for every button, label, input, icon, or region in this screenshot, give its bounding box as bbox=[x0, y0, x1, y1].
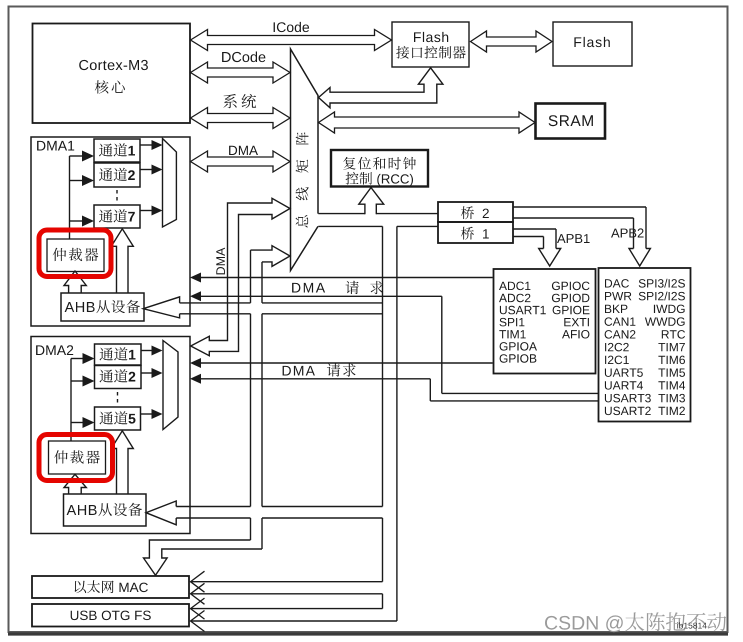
wire bridge1 to APB1 (lower) bbox=[513, 236, 544, 238]
dashed link channels bbox=[116, 190, 118, 203]
block APB2 peripherals bbox=[599, 268, 691, 422]
label 仲裁器 (DMA2) bbox=[54, 450, 100, 463]
label 总线矩阵 (rotated) bbox=[296, 132, 309, 227]
arrow matrix to SRAM bbox=[319, 112, 536, 133]
channel H_ahb2 bottom wall bbox=[176, 517, 250, 519]
channel V right wall bbox=[396, 226, 398, 621]
block bridge 1 bbox=[438, 222, 513, 243]
wire ch1 to funnel DMA2 bbox=[141, 350, 152, 352]
wire to USB 2 bbox=[191, 620, 397, 622]
wire to ch1 + head bbox=[70, 155, 85, 157]
wire to ch1 DMA2 + head bbox=[71, 358, 84, 360]
label 桥 2 bbox=[461, 206, 489, 219]
block DMA1 channel 7 bbox=[94, 205, 140, 228]
funnel DMA2 bbox=[163, 341, 178, 430]
channel C1 right wall segments bbox=[261, 262, 263, 303]
block USB OTG FS bbox=[32, 604, 189, 627]
channel matrix to bridges (top wall + RCC arrow gap) bbox=[318, 213, 365, 215]
channel V left wall segments bbox=[382, 226, 384, 506]
label 仲裁器 (DMA1) bbox=[53, 248, 99, 261]
wire DMA request W2 (APB2 to DMA1) bbox=[196, 295, 442, 297]
block SRAM bbox=[536, 104, 606, 139]
arrow AHB slave up into arbiter (DMA2) bbox=[64, 474, 86, 493]
label DMA bbox=[229, 146, 258, 155]
label DCode bbox=[222, 52, 265, 63]
label DMA 请求 (upper) bbox=[292, 283, 325, 293]
channel H_ahb1 bottom wall bbox=[180, 313, 251, 315]
label SRAM bbox=[549, 115, 593, 126]
block APB1 peripherals bbox=[494, 269, 596, 374]
dashed link channels DMA2 bbox=[117, 392, 119, 405]
label DMA1 bbox=[37, 141, 74, 151]
label DMA2 bbox=[36, 345, 73, 355]
label 桥 1 bbox=[461, 227, 489, 240]
red highlight frame (DMA1 arbiter) bbox=[39, 230, 111, 277]
watermark id bbox=[677, 622, 707, 628]
label APB1 bbox=[557, 234, 590, 243]
arrow AHB slave up into channel 5 bbox=[111, 431, 133, 494]
block DMA2 channel 1 bbox=[95, 344, 142, 365]
channel H_ahb2 top wall bbox=[176, 506, 250, 508]
arrow down into Ethernet MAC (elbow from C1) bbox=[144, 540, 263, 575]
block Ethernet MAC bbox=[32, 576, 189, 598]
wire to ch5 + head bbox=[71, 422, 84, 424]
arrow down into APB1 box bbox=[539, 249, 561, 267]
arrow FlashIF to Flash bbox=[471, 31, 553, 52]
wire ch2 to funnel bbox=[140, 169, 152, 171]
labels APB1 peripheral list bbox=[499, 282, 530, 291]
arrow into DMA2 AHB slave (head) bbox=[146, 501, 176, 525]
wire bridge1 to APB1 (upper) bbox=[513, 228, 557, 230]
watermark CSDN bbox=[545, 612, 726, 632]
label Cortex-M3 bbox=[79, 60, 148, 70]
block DMA2 channel 5 bbox=[95, 407, 141, 430]
channel C1 left wall segments bbox=[250, 250, 252, 303]
label DMA 请求 (lower) bbox=[283, 363, 356, 376]
wire to MAC 1 bbox=[191, 581, 383, 583]
arrow System bus (Cortex to matrix) bbox=[191, 108, 291, 129]
wire ch7 to funnel bbox=[140, 210, 152, 212]
label 核心 bbox=[95, 80, 125, 93]
label DMA (vertical, DMA2 master) bbox=[216, 248, 225, 275]
block bridge 2 bbox=[438, 202, 513, 222]
block DMA2 AHB slave bbox=[64, 494, 147, 526]
label 通道2 bbox=[99, 168, 135, 181]
label APB2 bbox=[611, 228, 644, 237]
block RCC (reset & clock control) bbox=[331, 150, 428, 187]
arrow matrix to Flash interface (elbow up) bbox=[319, 68, 443, 108]
block DMA1 channel 2 bbox=[94, 163, 140, 187]
block DMA1 AHB slave bbox=[61, 293, 144, 321]
funnel DMA1 bbox=[163, 139, 177, 228]
arrow into matrix (AHB slaves, lower) bbox=[251, 246, 291, 267]
arrow up into RCC bbox=[359, 188, 384, 215]
label 以太网 MAC bbox=[75, 580, 148, 593]
label 系统 bbox=[223, 94, 256, 108]
label Flash bbox=[574, 37, 609, 47]
channel matrix to bridges (bottom wall with riser gap) bbox=[318, 225, 382, 227]
block DMA1 arbiter bbox=[47, 239, 104, 272]
wire ch1 to funnel bbox=[140, 144, 152, 146]
wire bridge2 to APB2 (lower) bbox=[513, 217, 634, 219]
arrow AHB slave up into arbiter (DMA1) bbox=[64, 271, 86, 293]
arrow DCode (Cortex to matrix) bbox=[191, 62, 291, 83]
label 复位和时钟 bbox=[343, 157, 416, 170]
bus matrix outline bbox=[291, 49, 319, 271]
block DMA1 channel 1 bbox=[94, 139, 140, 162]
wire arbiter riser DMA2 bbox=[70, 359, 72, 442]
arrow into matrix (DMA2 master, upper) with channel and DMA2 head bbox=[191, 198, 290, 355]
label 通道1 bbox=[99, 143, 135, 156]
channel H_ahb1 top wall bbox=[180, 302, 251, 304]
arrow AHB slave up into channel 7 bbox=[111, 229, 133, 293]
wire to ch2 DMA2 + head bbox=[71, 380, 84, 382]
label 接口控制器 bbox=[396, 46, 466, 59]
block Flash memory bbox=[553, 22, 632, 66]
red highlight frame (DMA2 arbiter) bbox=[39, 435, 113, 481]
label 通道7 bbox=[99, 209, 135, 222]
wire to ch7 + head bbox=[70, 220, 85, 222]
wire ch2 to funnel DMA2 bbox=[141, 372, 152, 374]
wire bridge2 to APB2 (upper) bbox=[513, 206, 647, 208]
block DMA2 channel 2 bbox=[95, 366, 142, 389]
arrow ICode (Cortex to FlashIF) bbox=[191, 30, 392, 51]
label 通道1 (DMA2) bbox=[100, 347, 136, 360]
label 通道2 (DMA2) bbox=[100, 369, 136, 382]
arrow into DMA1 AHB slave (head) bbox=[143, 297, 179, 318]
wire DMA request W3 (APB1 to DMA2) bbox=[196, 362, 493, 364]
label ICode bbox=[274, 22, 310, 32]
label AHB从设备 (DMA2) bbox=[67, 503, 143, 516]
wire ch5 to funnel DMA2 bbox=[141, 413, 153, 415]
label Flash (interface) bbox=[414, 32, 448, 42]
block DMA2 bbox=[31, 337, 190, 534]
wire arbiter riser DMA1 bbox=[69, 156, 71, 239]
wire to ch2 + head bbox=[70, 180, 85, 182]
labels APB2 peripheral list bbox=[605, 279, 629, 288]
wire to USB 1 bbox=[191, 608, 383, 610]
arrow down into APB2 box bbox=[629, 249, 650, 267]
wire DMA request W4 (APB2 to DMA2) bbox=[196, 378, 430, 380]
label 控制 (RCC) bbox=[346, 172, 413, 186]
wire to MAC 2 bbox=[191, 593, 383, 595]
label AHB从设备 (DMA1) bbox=[65, 300, 141, 313]
label 通道5 bbox=[100, 411, 136, 424]
block Cortex-M3 core bbox=[33, 24, 191, 124]
block DMA2 arbiter bbox=[49, 441, 106, 474]
wire DMA request W1 (APB1 to DMA1) bbox=[196, 277, 493, 279]
label USB OTG FS bbox=[71, 611, 151, 621]
block Flash interface controller bbox=[392, 22, 469, 67]
block DMA1 bbox=[31, 137, 190, 326]
arrow DMA1 master (DMA1 to matrix) bbox=[191, 151, 291, 172]
